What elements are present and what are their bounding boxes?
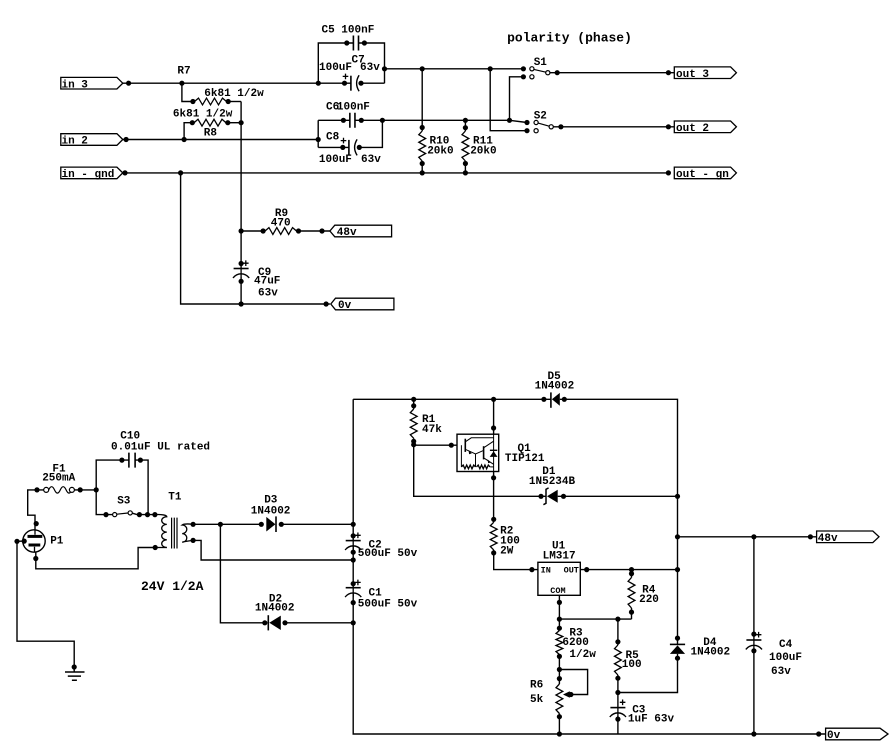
junction U1 IN terminal — [529, 567, 534, 572]
node tag 48v (bottom) — [817, 531, 879, 543]
svg-text:1N4002: 1N4002 — [251, 505, 291, 517]
junction out2 tag — [666, 124, 671, 129]
transformer T1 — [152, 512, 157, 517]
junction in2/R8 — [182, 137, 187, 142]
capacitor C3 — [617, 693, 619, 708]
junction S2 crosslink — [488, 66, 493, 71]
node tag in - gnd — [61, 167, 123, 179]
junction Q1 collector rail — [491, 397, 496, 402]
svg-text:470: 470 — [271, 217, 291, 229]
zener diode D1 — [538, 494, 543, 499]
capacitor C10 — [96, 460, 129, 490]
Q1 emitter terminal — [491, 475, 496, 480]
svg-text:6k81 1/2w: 6k81 1/2w — [204, 88, 264, 100]
svg-text:20k0: 20k0 — [470, 145, 496, 157]
wire signal3 out — [385, 68, 524, 70]
junction D3/bus — [351, 522, 356, 527]
switch S3 — [96, 490, 112, 515]
junction in2 tag — [124, 137, 129, 142]
plug P1 — [23, 530, 45, 552]
node tag out - gnd — [674, 167, 736, 179]
svg-text:out - gn: out - gn — [676, 169, 729, 181]
capacitor C2 — [351, 533, 356, 538]
svg-text:in 2: in 2 — [62, 136, 88, 148]
svg-text:63v: 63v — [258, 287, 278, 299]
svg-text:1N4002: 1N4002 — [535, 381, 575, 393]
junction R1 top rail — [411, 397, 416, 402]
junction in3/R7 — [179, 81, 184, 86]
svg-text:polarity (phase): polarity (phase) — [507, 31, 632, 46]
wire gnd to 0v — [181, 173, 330, 304]
svg-text:TIP121: TIP121 — [505, 453, 545, 465]
svg-text:LM317: LM317 — [543, 550, 576, 562]
svg-text:100uF: 100uF — [319, 62, 352, 74]
junction C5C7 output — [382, 66, 387, 71]
diode D4 — [675, 636, 680, 641]
svg-text:T1: T1 — [168, 491, 182, 503]
junction D2/bus — [351, 620, 356, 625]
svg-text:C5 100nF: C5 100nF — [322, 25, 375, 37]
junction fuse/C10/S3 — [94, 487, 99, 492]
svg-text:24V 1/2A: 24V 1/2A — [141, 579, 204, 594]
wire in-gnd bus — [123, 172, 669, 174]
svg-text:1N4002: 1N4002 — [255, 603, 295, 615]
wire Q1 base — [414, 444, 457, 446]
junction R4 top — [629, 567, 634, 572]
junction C4/0v rail — [751, 731, 756, 736]
junction C6C8 output — [380, 118, 385, 123]
svg-text:63v: 63v — [771, 666, 791, 678]
svg-text:63v: 63v — [361, 154, 381, 166]
wire adjust node — [559, 618, 631, 620]
wire D4 bottom link — [618, 654, 678, 693]
capacitor C1 — [351, 581, 356, 586]
svg-text:6k81 1/2w: 6k81 1/2w — [173, 109, 233, 121]
node tag in 3 — [61, 77, 123, 89]
Q1 internal diode — [490, 449, 497, 451]
junction OUT/right bus — [675, 567, 680, 572]
svg-text:C4: C4 — [779, 639, 793, 651]
junction sec return/bus — [351, 557, 356, 562]
junction 48v tag — [808, 534, 813, 539]
svg-text:OUT: OUT — [564, 566, 579, 576]
svg-text:0v: 0v — [338, 300, 352, 312]
junction R5 top — [615, 617, 620, 622]
junction COM/R3 — [557, 617, 562, 622]
junction R6/0v rail — [557, 731, 562, 736]
svg-text:48v: 48v — [818, 533, 838, 545]
potentiometer R6 — [557, 676, 562, 681]
Q1 internal resistors — [461, 465, 475, 469]
svg-text:6200: 6200 — [562, 637, 588, 649]
capacitor C8 — [318, 146, 349, 148]
svg-text:out 3: out 3 — [676, 69, 709, 81]
svg-text:COM: COM — [550, 586, 565, 596]
junction R3/R6/wiper — [557, 667, 562, 672]
resistor R4 — [631, 570, 633, 578]
junction R11 top — [463, 118, 468, 123]
node tag out 2 — [674, 121, 736, 133]
svg-text:0v: 0v — [827, 730, 841, 742]
switch S2 — [524, 120, 529, 125]
wire T1 sec top — [193, 523, 262, 525]
svg-text:100uF: 100uF — [769, 652, 802, 664]
svg-text:48v: 48v — [337, 227, 357, 239]
node tag out 3 — [674, 67, 736, 79]
junction gnd tag — [122, 170, 127, 175]
junction R10 top — [420, 66, 425, 71]
junction C9/0v — [239, 301, 244, 306]
wire P1 to earth — [17, 541, 74, 672]
svg-text:2W: 2W — [500, 546, 514, 558]
node tag in 2 — [61, 134, 123, 146]
svg-text:5k: 5k — [530, 694, 544, 706]
svg-text:S2: S2 — [534, 111, 547, 123]
U1 COM terminal — [557, 600, 562, 605]
wire phantom feed vertical — [240, 102, 242, 269]
wire in2 — [123, 139, 318, 141]
R6 wiper — [559, 670, 587, 695]
wire U1 COM — [558, 595, 560, 619]
svg-text:1uF 63v: 1uF 63v — [628, 714, 675, 726]
resistor R3 — [558, 619, 560, 630]
svg-text:P1: P1 — [50, 536, 64, 548]
svg-text:R8: R8 — [204, 128, 218, 140]
diode D5 — [541, 397, 546, 402]
wire signal2 out — [382, 120, 527, 122]
svg-text:100uF: 100uF — [319, 154, 352, 166]
svg-text:1N5234B: 1N5234B — [529, 476, 576, 488]
transistor Q1 (TIP121) — [457, 434, 499, 471]
wire in3 — [123, 82, 351, 84]
junction out-gnd tag — [666, 170, 671, 175]
junction D2 branch — [218, 522, 223, 527]
junction Q1 base terminal — [449, 443, 454, 448]
svg-text:in - gnd: in - gnd — [62, 169, 115, 181]
junction gnd/0v drop — [178, 170, 183, 175]
Q1 collector terminal — [491, 425, 496, 430]
wire out3 — [550, 72, 674, 74]
capacitor C7 — [350, 76, 352, 91]
junction 0v tag — [324, 301, 329, 306]
fuse F1 — [34, 487, 39, 492]
junction 48v/right bus — [675, 534, 680, 539]
svg-text:500uF 50v: 500uF 50v — [358, 599, 418, 611]
svg-text:250mA: 250mA — [42, 472, 75, 484]
resistor R11 — [464, 120, 466, 131]
wire S2 lower contact — [490, 69, 527, 131]
svg-text:0.01uF UL rated: 0.01uF UL rated — [111, 442, 210, 454]
earth ground symbol — [65, 672, 85, 680]
regulator U1 LM317 — [538, 562, 580, 595]
wire S1 lower contact — [510, 77, 524, 121]
svg-text:R7: R7 — [177, 65, 190, 77]
svg-text:in 3: in 3 — [62, 79, 89, 91]
capacitor C4 — [753, 537, 755, 640]
wire Q1 collector — [493, 399, 495, 434]
resistor R8 — [184, 123, 192, 140]
svg-text:63v: 63v — [360, 62, 380, 74]
wire left bus — [352, 399, 354, 540]
resistor R7 — [182, 83, 193, 101]
node tag 0v (bottom) — [826, 728, 888, 740]
capacitor C6 — [317, 120, 319, 147]
svg-text:R6: R6 — [530, 680, 543, 692]
svg-text:S3: S3 — [117, 496, 131, 508]
svg-text:100: 100 — [622, 659, 642, 671]
svg-text:1/2w: 1/2w — [569, 649, 596, 661]
wire U1 OUT line — [580, 569, 677, 571]
junction R5/C3/D4 — [615, 690, 620, 695]
svg-text:IN: IN — [541, 566, 551, 576]
svg-text:220: 220 — [639, 594, 659, 606]
resistor R5 — [617, 619, 619, 645]
svg-text:S1: S1 — [534, 57, 548, 69]
wire out2 — [553, 126, 674, 128]
wire 48v output — [678, 536, 817, 538]
U1 OUT terminal — [584, 567, 589, 572]
junction out3 tag — [666, 70, 671, 75]
svg-text:47k: 47k — [422, 424, 442, 436]
svg-text:47uF: 47uF — [254, 276, 280, 288]
node tag 0v (top) — [331, 298, 394, 310]
wire top rail — [353, 398, 551, 400]
svg-text:C8: C8 — [326, 132, 340, 144]
capacitor C9 — [239, 261, 244, 266]
wire T1 sec bottom — [193, 540, 353, 560]
node tag 48v (top) — [330, 225, 392, 237]
junction C4 top — [751, 534, 756, 539]
svg-text:out 2: out 2 — [676, 123, 709, 135]
junction D1/right bus — [675, 494, 680, 499]
svg-text:500uF 50v: 500uF 50v — [358, 548, 418, 560]
junction S1 crosslink — [507, 118, 512, 123]
resistor R9 — [239, 228, 244, 233]
diode D2 — [220, 524, 266, 623]
resistor R10 — [421, 69, 423, 131]
junction 0v tag — [816, 731, 821, 736]
svg-text:20k0: 20k0 — [427, 145, 453, 157]
junction in3 tag — [126, 81, 131, 86]
switch S1 — [521, 66, 526, 71]
capacitor C5 — [318, 43, 353, 83]
wire P1 top to fuse — [28, 490, 44, 530]
svg-text:1N4002: 1N4002 — [691, 646, 731, 658]
wire P1 bottom to T1 — [36, 548, 156, 569]
svg-text:100nF: 100nF — [337, 101, 370, 113]
